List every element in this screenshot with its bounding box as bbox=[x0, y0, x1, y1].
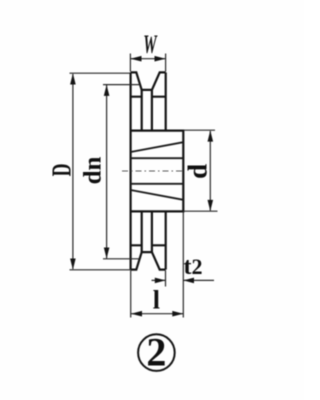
svg-text:W: W bbox=[143, 30, 158, 59]
svg-text:D: D bbox=[47, 164, 77, 177]
svg-text:t2: t2 bbox=[184, 254, 203, 280]
svg-text:d: d bbox=[183, 164, 213, 179]
svg-text:dn: dn bbox=[80, 157, 107, 185]
svg-text:l: l bbox=[153, 286, 160, 315]
svg-text:2: 2 bbox=[146, 330, 166, 375]
